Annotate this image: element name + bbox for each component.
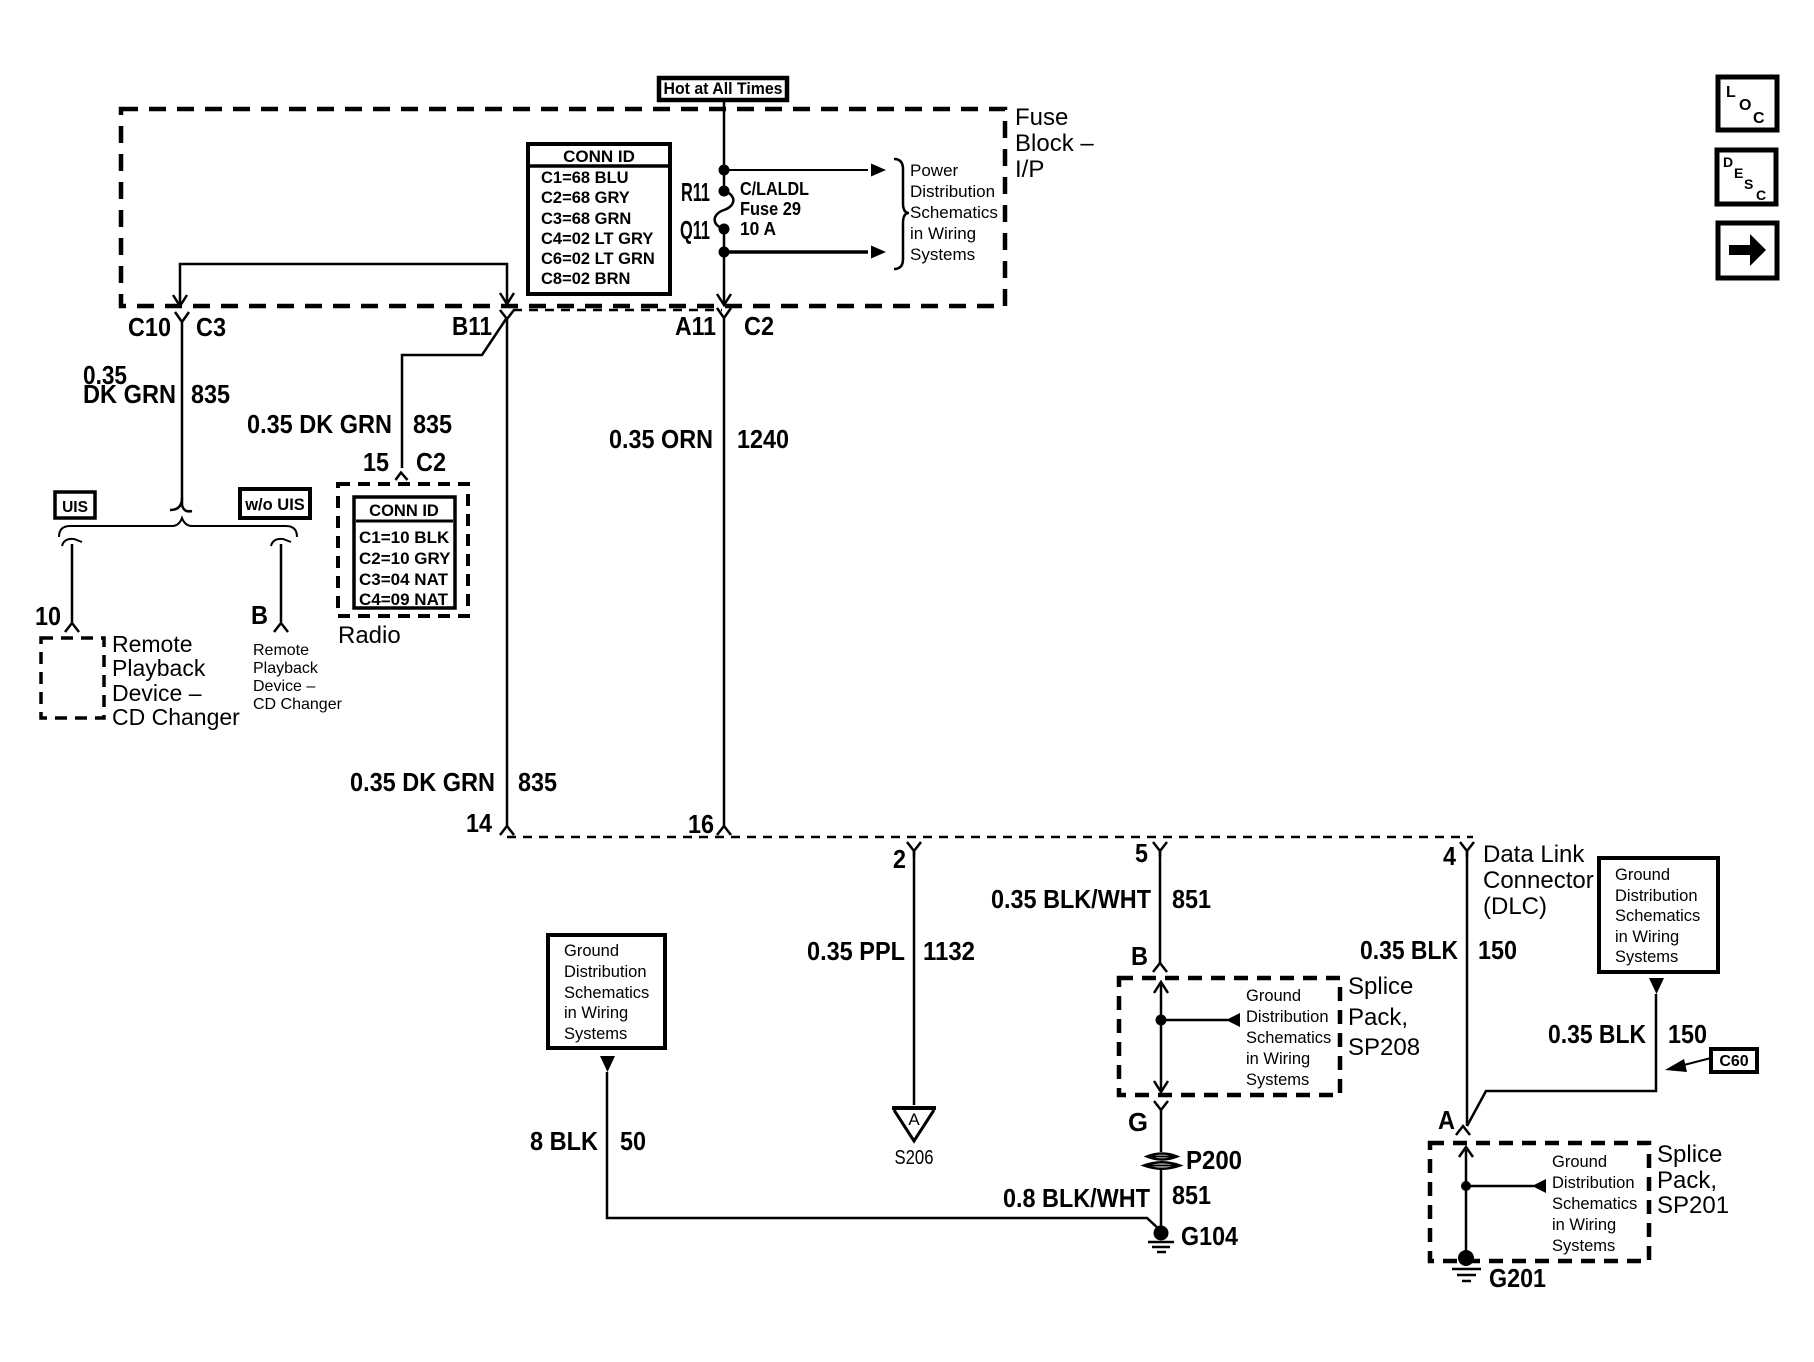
- wire hot feed down into fuse block: [723, 102, 726, 191]
- svg-text:C2: C2: [416, 447, 446, 477]
- fuse F29 S-curve element: [715, 191, 734, 229]
- label Remote Playback Device CD Changer small: [253, 642, 343, 713]
- svg-text:Remote: Remote: [112, 631, 193, 657]
- svg-text:2: 2: [893, 844, 906, 874]
- svg-text:C60: C60: [1719, 1053, 1748, 1070]
- fuse value label C/LALDL Fuse 29 10 A: [740, 178, 809, 239]
- svg-text:S206: S206: [895, 1147, 934, 1169]
- connector 15/C2 radio: [396, 473, 408, 481]
- wire w/o UIS branch: [280, 544, 283, 622]
- svg-text:Block –: Block –: [1015, 130, 1094, 157]
- svg-text:C1=68 BLU: C1=68 BLU: [541, 169, 629, 187]
- svg-text:w/o UIS: w/o UIS: [244, 496, 305, 514]
- svg-text:Distribution: Distribution: [1552, 1174, 1635, 1192]
- label SP208 ground distribution ref: [1246, 987, 1331, 1089]
- svg-text:B: B: [251, 600, 268, 630]
- label Splice Pack SP201: [1657, 1141, 1729, 1219]
- svg-text:I/P: I/P: [1015, 156, 1044, 183]
- svg-text:C2: C2: [744, 311, 774, 341]
- pin 5 connector: [1153, 842, 1167, 857]
- svg-text:Pack,: Pack,: [1657, 1167, 1717, 1194]
- svg-text:C3=68 GRN: C3=68 GRN: [541, 210, 631, 228]
- svg-text:4: 4: [1443, 841, 1456, 871]
- w/o UIS box: [240, 489, 310, 518]
- label Splice Pack SP208: [1348, 973, 1420, 1061]
- svg-text:0.35 DK GRN: 0.35 DK GRN: [247, 409, 392, 439]
- splice pack SP208 dashed box: [1119, 978, 1340, 1095]
- fuse block I/P dashed box: [121, 109, 1005, 306]
- svg-text:Playback: Playback: [112, 655, 206, 681]
- arrow below left ref box: [600, 1056, 615, 1072]
- svg-text:CD Changer: CD Changer: [253, 696, 343, 713]
- node SP201 junction dot: [1461, 1181, 1471, 1191]
- svg-text:C2=10 GRY: C2=10 GRY: [359, 549, 451, 568]
- svg-text:Connector: Connector: [1483, 867, 1594, 894]
- node junction dot bottom: [719, 247, 730, 258]
- radio box top dashed edge: [513, 309, 722, 312]
- svg-text:C8=02 BRN: C8=02 BRN: [541, 270, 630, 288]
- svg-text:150: 150: [1478, 935, 1517, 965]
- svg-text:R11: R11: [681, 177, 710, 207]
- svg-text:0.35 BLK/WHT: 0.35 BLK/WHT: [991, 884, 1151, 914]
- svg-text:Schematics: Schematics: [1246, 1029, 1331, 1047]
- svg-text:10 A: 10 A: [740, 218, 776, 239]
- svg-text:B: B: [1131, 941, 1148, 971]
- svg-text:A11: A11: [675, 311, 716, 341]
- radio dashed box: [338, 484, 468, 616]
- svg-text:8 BLK: 8 BLK: [530, 1126, 598, 1156]
- svg-text:Systems: Systems: [1615, 948, 1678, 966]
- C60 box: [1711, 1049, 1757, 1072]
- svg-text:Splice: Splice: [1348, 973, 1413, 1000]
- svg-text:Device –: Device –: [112, 680, 202, 706]
- wire ref box branch to A: [1467, 994, 1656, 1126]
- svg-text:835: 835: [413, 409, 452, 439]
- brace UIS split: [59, 518, 297, 537]
- svg-text:in Wiring: in Wiring: [564, 1004, 628, 1022]
- svg-text:Hot at All Times: Hot at All Times: [664, 79, 783, 98]
- pin 2 connector: [907, 842, 921, 857]
- svg-text:Playback: Playback: [253, 660, 319, 677]
- svg-text:0.8 BLK/WHT: 0.8 BLK/WHT: [1003, 1183, 1150, 1213]
- svg-text:A: A: [1438, 1105, 1455, 1135]
- svg-text:Schematics: Schematics: [1552, 1195, 1637, 1213]
- svg-text:1240: 1240: [737, 424, 789, 454]
- svg-text:Distribution: Distribution: [1615, 887, 1698, 905]
- svg-text:Distribution: Distribution: [564, 963, 647, 981]
- svg-text:5: 5: [1135, 838, 1148, 868]
- ground G104: [1154, 1226, 1169, 1241]
- svg-text:Systems: Systems: [1552, 1237, 1615, 1255]
- wire fuse to bottom arrow: [723, 229, 726, 304]
- node R11 dot: [719, 186, 730, 197]
- svg-text:10: 10: [35, 601, 61, 631]
- ground G201: [1458, 1250, 1474, 1266]
- svg-text:Systems: Systems: [564, 1025, 627, 1043]
- wire B11 branch to radio: [402, 319, 506, 468]
- svg-text:Q11: Q11: [680, 215, 710, 245]
- svg-text:A: A: [908, 1110, 920, 1129]
- splice S206 triangle: [892, 1106, 936, 1110]
- svg-text:S: S: [1744, 176, 1753, 192]
- Hot at All Times box: [659, 78, 787, 100]
- svg-text:Schematics: Schematics: [564, 984, 649, 1002]
- svg-text:C2=68 GRY: C2=68 GRY: [541, 189, 630, 207]
- CONN ID table radio: [354, 497, 455, 608]
- hook left branch: [62, 539, 82, 546]
- svg-text:in Wiring: in Wiring: [1615, 928, 1679, 946]
- connector A11/C2 symbol: [717, 308, 731, 326]
- connector A splice pack: [1456, 1126, 1470, 1135]
- svg-text:1132: 1132: [923, 936, 975, 966]
- wire 8 BLK 50 to G104: [607, 1072, 1161, 1231]
- svg-text:C4=09 NAT: C4=09 NAT: [359, 590, 449, 609]
- svg-text:15: 15: [363, 447, 389, 477]
- ground distribution ref box left: [548, 935, 665, 1048]
- connector B remote: [274, 623, 288, 632]
- wire pin5 down to B: [1159, 851, 1162, 965]
- wire SP208 ref arrow: [1161, 1019, 1228, 1022]
- svg-text:Ground: Ground: [1552, 1153, 1607, 1171]
- svg-text:C1=10 BLK: C1=10 BLK: [359, 528, 450, 547]
- svg-text:835: 835: [191, 379, 230, 409]
- connector 10: [65, 623, 79, 632]
- CD changer dashed box: [41, 638, 104, 718]
- svg-text:O: O: [1739, 97, 1751, 114]
- label Fuse Block - I/P: [1015, 104, 1094, 183]
- svg-text:CONN ID: CONN ID: [369, 502, 439, 520]
- arrow below right ref box: [1649, 978, 1664, 994]
- svg-text:G201: G201: [1489, 1263, 1546, 1293]
- pin 16 connector: [717, 826, 731, 835]
- svg-text:Ground: Ground: [564, 942, 619, 960]
- node SP208 junction dot: [1156, 1015, 1167, 1026]
- connector C10/C3 symbol: [175, 312, 189, 330]
- wire A11 down to pin 16: [723, 326, 726, 828]
- svg-text:in Wiring: in Wiring: [1246, 1050, 1310, 1068]
- svg-text:0.35 ORN: 0.35 ORN: [609, 424, 713, 454]
- arrowhead at B11: [500, 293, 514, 304]
- svg-text:in Wiring: in Wiring: [910, 224, 976, 243]
- label SP201 ground distribution ref: [1552, 1153, 1637, 1255]
- svg-text:0.35 BLK: 0.35 BLK: [1548, 1019, 1646, 1049]
- svg-text:Pack,: Pack,: [1348, 1004, 1408, 1031]
- svg-text:C3: C3: [196, 312, 226, 342]
- wire inside SP208 with arrows: [1160, 983, 1163, 1091]
- wire arrow to power distribution top: [724, 169, 868, 171]
- wire C3 down to UIS brace: [181, 330, 184, 505]
- svg-text:C: C: [1756, 187, 1766, 203]
- svg-text:C10: C10: [128, 312, 171, 342]
- svg-text:Power: Power: [910, 161, 959, 180]
- svg-text:851: 851: [1172, 1180, 1211, 1210]
- svg-text:(DLC): (DLC): [1483, 893, 1547, 920]
- svg-text:SP208: SP208: [1348, 1034, 1420, 1061]
- splice pack SP201 dashed box: [1430, 1143, 1649, 1261]
- svg-text:D: D: [1723, 154, 1733, 170]
- label Data Link Connector (DLC): [1483, 841, 1594, 920]
- svg-text:C: C: [1753, 110, 1765, 127]
- svg-text:B11: B11: [452, 311, 492, 341]
- button LOC: [1718, 77, 1777, 130]
- wire G to P200: [1160, 1110, 1163, 1152]
- wire bus inside fuse block: [180, 264, 507, 304]
- svg-text:Device –: Device –: [253, 678, 315, 695]
- svg-text:14: 14: [466, 808, 492, 838]
- svg-text:CD Changer: CD Changer: [112, 704, 240, 730]
- component bottom dashed edge: [507, 836, 1473, 839]
- svg-text:P200: P200: [1186, 1145, 1242, 1175]
- wire pin2 to S206: [913, 851, 916, 1105]
- pin 4 connector: [1460, 842, 1474, 857]
- ground distribution ref box right: [1599, 858, 1718, 972]
- svg-text:CONN ID: CONN ID: [563, 147, 635, 166]
- wire SP201 ref arrow: [1466, 1185, 1534, 1188]
- svg-text:L: L: [1726, 84, 1736, 101]
- hook right branch: [271, 539, 291, 546]
- svg-text:in Wiring: in Wiring: [1552, 1216, 1616, 1234]
- svg-text:Splice: Splice: [1657, 1141, 1722, 1168]
- label Remote Playback Device CD Changer large: [112, 631, 240, 730]
- node Q11 dot: [719, 224, 730, 235]
- wire end hook: [170, 498, 192, 511]
- wire P200 to G104: [1160, 1169, 1163, 1233]
- svg-text:UIS: UIS: [62, 499, 88, 516]
- pin 14 connector: [500, 826, 514, 835]
- svg-text:Ground: Ground: [1246, 987, 1301, 1005]
- connector G splice pack: [1154, 1101, 1168, 1110]
- connector B11 symbol: [500, 310, 514, 319]
- svg-text:Distribution: Distribution: [910, 182, 995, 201]
- svg-text:Fuse: Fuse: [1015, 104, 1068, 131]
- svg-text:0.35 PPL: 0.35 PPL: [807, 936, 905, 966]
- svg-text:Schematics: Schematics: [1615, 907, 1700, 925]
- svg-text:150: 150: [1668, 1019, 1707, 1049]
- wire inside SP201: [1465, 1150, 1468, 1257]
- svg-text:851: 851: [1172, 884, 1211, 914]
- svg-text:C4=02 LT GRY: C4=02 LT GRY: [541, 230, 653, 248]
- wire pin4 DLC down to A: [1466, 851, 1469, 1126]
- svg-text:G104: G104: [1181, 1221, 1238, 1251]
- svg-text:Ground: Ground: [1615, 866, 1670, 884]
- svg-text:0.35 BLK: 0.35 BLK: [1360, 935, 1458, 965]
- arrowhead at C10: [173, 295, 187, 306]
- svg-text:C6=02 LT GRN: C6=02 LT GRN: [541, 250, 655, 268]
- svg-text:C3=04 NAT: C3=04 NAT: [359, 570, 449, 589]
- brace power distribution: [894, 159, 909, 269]
- svg-text:Systems: Systems: [910, 245, 975, 264]
- svg-text:Radio: Radio: [338, 622, 401, 649]
- button DESC: [1717, 150, 1776, 204]
- svg-text:Remote: Remote: [253, 642, 309, 659]
- wire UIS branch: [71, 544, 74, 622]
- svg-text:50: 50: [620, 1126, 646, 1156]
- svg-text:Distribution: Distribution: [1246, 1008, 1329, 1026]
- svg-text:C/LALDL: C/LALDL: [740, 178, 809, 199]
- svg-text:E: E: [1734, 165, 1743, 181]
- svg-text:SP201: SP201: [1657, 1192, 1729, 1219]
- svg-text:Fuse 29: Fuse 29: [740, 198, 801, 219]
- svg-text:Systems: Systems: [1246, 1071, 1309, 1089]
- svg-text:835: 835: [518, 767, 557, 797]
- label Power Distribution Schematics in Wiring Systems: [910, 161, 998, 264]
- arrowhead at A11: [717, 294, 731, 305]
- svg-text:0.35 DK GRN: 0.35 DK GRN: [350, 767, 495, 797]
- svg-text:DK GRN: DK GRN: [83, 379, 176, 409]
- CONN ID table fuse block: [528, 144, 670, 294]
- connector B splice pack: [1153, 963, 1167, 972]
- svg-text:Schematics: Schematics: [910, 203, 998, 222]
- grommet P200: [1147, 1154, 1177, 1160]
- node junction dot top: [719, 165, 730, 176]
- svg-text:16: 16: [688, 809, 714, 839]
- UIS box: [55, 492, 95, 518]
- svg-text:Data Link: Data Link: [1483, 841, 1585, 868]
- arrow C60 to wire: [1680, 1058, 1711, 1066]
- wire arrow to power distribution bottom: [724, 250, 868, 254]
- svg-text:G: G: [1128, 1107, 1148, 1137]
- button next arrow: [1718, 223, 1777, 278]
- wire B11 down to pin 14: [506, 319, 509, 828]
